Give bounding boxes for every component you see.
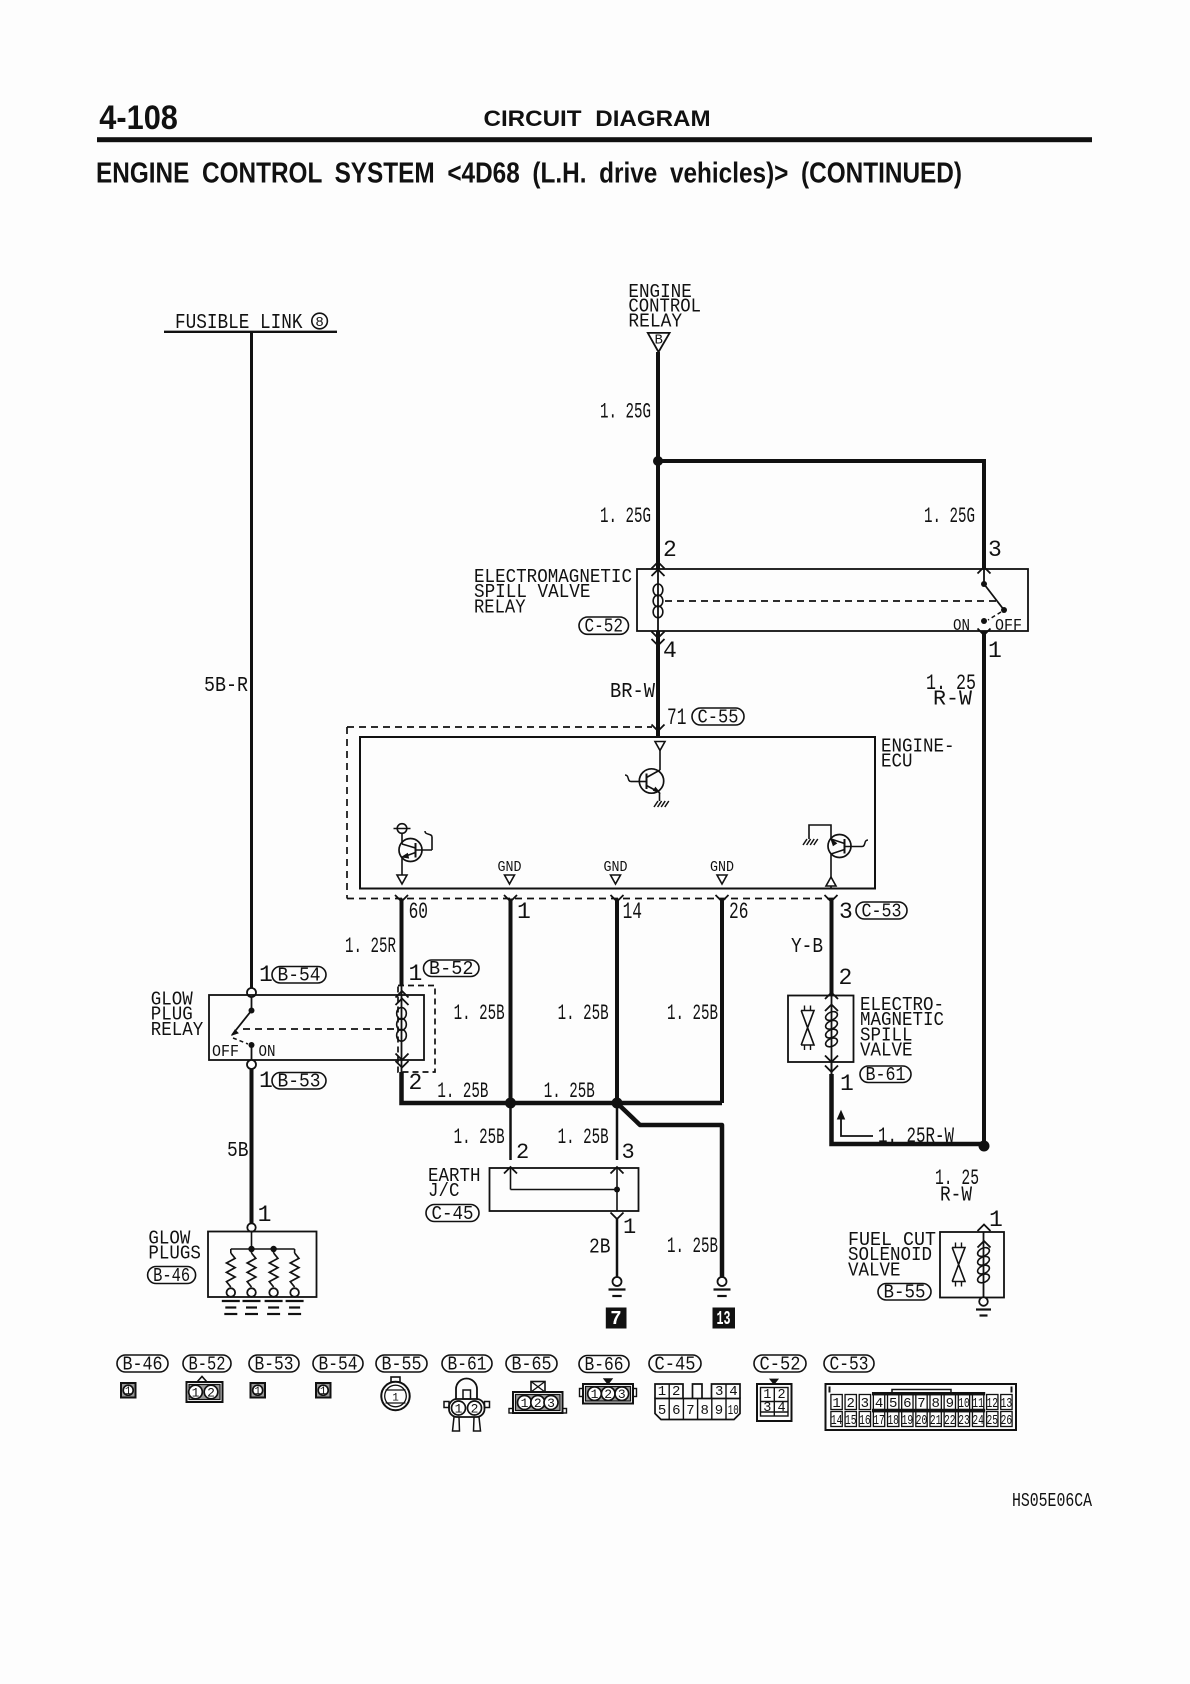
electromagnetic spill valve relay box C-52 <box>637 569 1028 631</box>
connector label B-53 (row) <box>249 1355 299 1372</box>
connector label C-53 (row) <box>824 1355 874 1372</box>
svg-text:4: 4 <box>875 1396 883 1412</box>
svg-text:8: 8 <box>700 1403 708 1419</box>
svg-text:1. 25B: 1. 25B <box>454 1001 505 1026</box>
svg-text:2: 2 <box>534 1396 542 1411</box>
svg-text:C-45: C-45 <box>655 1354 696 1376</box>
svg-text:2: 2 <box>663 537 677 563</box>
earth J/C box C-45 <box>490 1168 639 1211</box>
glow plugs internal bus <box>251 1232 253 1250</box>
svg-text:1: 1 <box>658 1384 666 1400</box>
B-52 connector arrows bottom <box>396 1054 409 1061</box>
node: B-54 terminal circle <box>247 988 256 997</box>
connector C-45 pin face <box>655 1384 740 1399</box>
svg-text:3: 3 <box>839 899 853 925</box>
fusible link circled 8 <box>312 313 328 329</box>
svg-text:HS05E06CA: HS05E06CA <box>1012 1490 1092 1512</box>
svg-text:8: 8 <box>315 315 323 331</box>
svg-text:8: 8 <box>931 1396 939 1412</box>
svg-text:4: 4 <box>729 1384 737 1400</box>
connector B-54 pin face <box>316 1383 331 1398</box>
svg-text:1. 25B: 1. 25B <box>558 1125 609 1150</box>
pin 2 connector arrows <box>652 562 665 569</box>
svg-text:7: 7 <box>610 1308 621 1330</box>
svg-text:11: 11 <box>972 1396 984 1412</box>
spill valve relay switch <box>983 569 985 584</box>
svg-text:1. 25B: 1. 25B <box>437 1079 488 1104</box>
svg-text:B-53: B-53 <box>255 1354 294 1376</box>
node: bus junction pin 1 <box>505 1098 516 1109</box>
fusible link bus bar <box>164 331 337 333</box>
svg-text:OFF: OFF <box>212 1042 239 1061</box>
transistor Q2 (center, pin 71 driver) <box>659 751 661 771</box>
svg-text:10: 10 <box>958 1396 970 1412</box>
svg-text:2: 2 <box>409 1070 423 1096</box>
B-61 pin 2 arrow inside box <box>825 1005 838 1012</box>
svg-text:1: 1 <box>409 961 423 987</box>
pin 60 arrow crossing harness <box>395 895 408 902</box>
svg-text:23: 23 <box>958 1413 970 1429</box>
svg-text:25: 25 <box>987 1413 999 1429</box>
node: glow plugs terminal circle <box>247 1223 255 1231</box>
svg-text:15: 15 <box>845 1413 857 1429</box>
wire: relay pin 1 down right side (1.25 R-W) <box>982 631 986 1146</box>
connector B-61 pin face <box>456 1379 477 1399</box>
spill valve relay coil <box>657 569 659 631</box>
svg-text:C-55: C-55 <box>698 706 739 728</box>
connector label C-45 (row) <box>649 1355 701 1372</box>
svg-text:ON: ON <box>953 616 970 635</box>
chassis ground of Q2 <box>654 801 658 807</box>
connector label B-66 (row) <box>579 1356 629 1373</box>
svg-text:B-55: B-55 <box>884 1282 926 1304</box>
svg-text:3: 3 <box>763 1401 771 1416</box>
svg-text:3: 3 <box>622 1140 635 1165</box>
wire: junction down to relay pin 2 <box>656 461 660 569</box>
svg-text:3: 3 <box>715 1384 723 1400</box>
connector label B-54 (row) <box>313 1355 363 1372</box>
svg-text:9: 9 <box>715 1403 723 1419</box>
connector label C-52 (row) <box>754 1355 806 1372</box>
wire: bus to earth J/C pin 2 <box>509 1103 512 1160</box>
svg-text:2: 2 <box>839 965 853 991</box>
svg-text:1: 1 <box>989 1207 1003 1233</box>
B-61 pin 1 arrow below box <box>825 1066 838 1073</box>
svg-text:1: 1 <box>517 899 531 925</box>
svg-text:RELAY: RELAY <box>628 311 682 333</box>
wire: relay pin 4 down to ECU pin 71 (BR-W) <box>656 631 660 737</box>
svg-text:GND: GND <box>604 859 628 876</box>
svg-text:22: 22 <box>944 1413 956 1429</box>
node: B-53 terminal circle <box>247 1060 256 1069</box>
GND triangle 2 <box>611 875 621 884</box>
earth J/C pin 1 arrow <box>611 1213 624 1220</box>
pin 1 arrow crossing harness <box>504 895 517 902</box>
svg-text:1: 1 <box>125 1386 132 1398</box>
svg-text:9: 9 <box>946 1396 954 1412</box>
ground reference 13 black box <box>713 1308 736 1329</box>
B-61 pin 2 arrow above box <box>825 993 838 1000</box>
glow plugs box B-46 <box>208 1232 317 1298</box>
svg-text:1: 1 <box>832 1396 840 1412</box>
transistor Q3 (right, pin 3 driver) <box>809 825 831 839</box>
svg-text:14: 14 <box>623 899 642 925</box>
svg-text:1. 25B: 1. 25B <box>454 1125 505 1150</box>
svg-text:1: 1 <box>258 1202 272 1228</box>
svg-text:5B: 5B <box>227 1139 249 1163</box>
ground symbol 13 <box>718 1277 727 1286</box>
svg-text:B-55: B-55 <box>382 1354 422 1376</box>
connector B-55 pin face <box>391 1377 400 1382</box>
switch throw arrow through box bottom <box>978 629 991 636</box>
connector B-66 pin face <box>604 1379 612 1384</box>
svg-text:B-66: B-66 <box>585 1354 624 1376</box>
harness dashed boundary bottom <box>347 898 836 900</box>
svg-text:1: 1 <box>254 1386 261 1398</box>
svg-text:14: 14 <box>831 1413 843 1429</box>
svg-text:71: 71 <box>667 705 686 731</box>
svg-text:1: 1 <box>988 638 1002 664</box>
svg-text:ON: ON <box>259 1042 276 1061</box>
transistor Q1 (left, pin 60 driver) <box>397 824 407 834</box>
fuel cut solenoid coil <box>983 1232 985 1298</box>
svg-text:1: 1 <box>320 1386 327 1398</box>
glow plug resistor 4 <box>294 1249 296 1253</box>
wire: glow plug relay to glow plugs (5B) <box>250 1069 254 1224</box>
GND triangle 3 <box>717 875 727 884</box>
svg-text:VALVE: VALVE <box>848 1259 901 1281</box>
svg-text:17: 17 <box>873 1413 885 1429</box>
pin 4 connector arrows <box>652 632 665 639</box>
ECU output arrowhead pin 60 <box>397 875 407 884</box>
svg-text:1: 1 <box>455 1401 463 1416</box>
svg-text:1: 1 <box>623 1215 636 1240</box>
B-61 pin 1 arrow inside box <box>825 1056 838 1063</box>
svg-text:BR-W: BR-W <box>610 680 655 704</box>
svg-text:1. 25R: 1. 25R <box>345 934 396 959</box>
connector C-52 pin face <box>770 1379 778 1384</box>
svg-text:B-61: B-61 <box>866 1064 906 1086</box>
svg-text:ECU: ECU <box>881 751 913 773</box>
connector label C-52 <box>579 617 629 634</box>
svg-text:Y-B: Y-B <box>791 935 823 959</box>
svg-text:B: B <box>654 333 662 349</box>
svg-text:5: 5 <box>658 1403 666 1419</box>
B-52 dashed connector box <box>398 986 435 1073</box>
svg-text:B-52: B-52 <box>429 958 474 980</box>
svg-text:B-65: B-65 <box>512 1354 552 1376</box>
svg-text:21: 21 <box>930 1413 942 1429</box>
svg-text:7: 7 <box>917 1396 925 1412</box>
svg-text:7: 7 <box>686 1403 694 1419</box>
connector label B-54 <box>272 967 326 984</box>
svg-text:B-53: B-53 <box>278 1071 321 1093</box>
B-55 pin 1 arrow above box <box>978 1225 991 1232</box>
engine control relay triangle B <box>648 333 670 352</box>
svg-text:3: 3 <box>861 1396 869 1412</box>
electromagnetic spill valve box B-61 <box>788 996 854 1063</box>
svg-text:1. 25G: 1. 25G <box>924 504 975 529</box>
B-55 pin 1 arrow inside box <box>978 1241 991 1248</box>
svg-text:1: 1 <box>521 1396 529 1411</box>
earth J/C internal wiring <box>510 1168 512 1190</box>
B-52 glow plug relay coil <box>401 986 403 1073</box>
svg-text:2: 2 <box>604 1387 612 1402</box>
svg-text:10: 10 <box>728 1403 739 1419</box>
svg-text:RELAY: RELAY <box>151 1019 204 1041</box>
spill valve symbol <box>801 1011 814 1046</box>
svg-text:B-46: B-46 <box>153 1265 190 1287</box>
glow plug relay box <box>209 995 424 1060</box>
harness dashed boundary left <box>346 727 348 899</box>
earth J/C pin 3 arrow <box>611 1167 624 1174</box>
connector label B-65 (row) <box>506 1355 557 1372</box>
svg-text:12: 12 <box>987 1396 999 1412</box>
wire: bus to earth J/C pin 3 <box>616 1103 619 1160</box>
svg-text:26: 26 <box>729 899 748 925</box>
svg-text:60: 60 <box>409 899 428 925</box>
wire: fusible link down to glow plug relay (5B-R) <box>250 332 253 988</box>
svg-text:1. 25B: 1. 25B <box>558 1001 609 1026</box>
pin 71 arrow into ECU <box>652 725 665 732</box>
connector label B-53 <box>272 1073 326 1090</box>
ground reference 7 black box <box>606 1308 627 1329</box>
svg-text:VALVE: VALVE <box>860 1040 913 1062</box>
harness dashed boundary top <box>347 726 652 728</box>
svg-text:4-108: 4-108 <box>99 99 178 137</box>
svg-text:R-W: R-W <box>940 1184 972 1208</box>
svg-text:B-46: B-46 <box>123 1354 163 1376</box>
svg-text:GND: GND <box>498 859 522 876</box>
svg-text:19: 19 <box>902 1413 914 1429</box>
wire name callout arrow 1.25R-W <box>841 1117 873 1136</box>
pin 26 arrow crossing harness <box>716 895 729 902</box>
wire: engine control relay down to junction (1.25G) <box>656 352 660 461</box>
wire: ECU pin 26 down (1.25B) <box>720 899 724 1104</box>
glow plug relay dashed link to coil <box>243 1028 394 1030</box>
svg-text:3: 3 <box>988 537 1002 563</box>
svg-text:J/C: J/C <box>428 1180 460 1202</box>
connector B-52 pin face <box>197 1377 207 1383</box>
svg-text:13: 13 <box>717 1308 731 1330</box>
wire: B-61 pin 1 to junction (1.25R-W) <box>831 1062 833 1076</box>
svg-text:1: 1 <box>259 1068 273 1094</box>
B-52 connector arrows top <box>396 991 409 998</box>
GND triangle 1 <box>505 875 515 884</box>
connector label B-61 (row) <box>442 1355 492 1372</box>
earth symbol B-55 <box>976 1308 991 1310</box>
glow plug resistor 1 <box>230 1249 232 1253</box>
glow plug ground terminals <box>227 1288 236 1297</box>
svg-text:2: 2 <box>207 1385 215 1400</box>
connector B-46 pin face <box>121 1383 136 1398</box>
svg-text:18: 18 <box>887 1413 899 1429</box>
connector label C-45 <box>426 1205 479 1222</box>
svg-text:B-54: B-54 <box>278 965 321 987</box>
svg-text:5: 5 <box>889 1396 897 1412</box>
fuel cut valve symbol <box>952 1248 965 1282</box>
connector label B-55 <box>878 1284 931 1301</box>
ground symbol 7 <box>613 1277 622 1286</box>
glow plug earth symbols <box>222 1300 240 1302</box>
pin 3 arrow crossing harness <box>825 895 838 902</box>
glow plug resistor 2 <box>251 1249 253 1253</box>
svg-text:RELAY: RELAY <box>474 596 526 618</box>
svg-text:1. 25B: 1. 25B <box>667 1234 718 1259</box>
wire: branch to ground 13 <box>617 1103 722 1277</box>
glow plug resistor 3 <box>273 1249 275 1253</box>
svg-text:C-52: C-52 <box>585 615 624 637</box>
wire: B-52 pin 2 to earth bus <box>402 1072 723 1103</box>
svg-text:1: 1 <box>591 1387 599 1402</box>
connector B-53 pin face <box>251 1383 266 1398</box>
svg-text:1. 25B: 1. 25B <box>667 1001 718 1026</box>
svg-text:20: 20 <box>916 1413 928 1429</box>
connector label C-53 <box>856 902 907 919</box>
svg-text:B-52: B-52 <box>189 1354 226 1376</box>
ECU input arrowhead at pin 71 <box>655 742 665 751</box>
wire: ECU pin 14 down (1.25B) <box>615 899 619 1104</box>
svg-text:1: 1 <box>840 1071 854 1097</box>
svg-text:6: 6 <box>903 1396 911 1412</box>
svg-text:B-61: B-61 <box>448 1354 487 1376</box>
svg-text:2: 2 <box>516 1140 529 1165</box>
connector C-53 pin face <box>826 1384 1017 1430</box>
header rule <box>97 137 1092 142</box>
svg-text:1: 1 <box>192 1385 200 1400</box>
node: 1.25G junction <box>653 456 663 466</box>
svg-text:2: 2 <box>672 1384 680 1400</box>
spill valve coil <box>831 996 833 1063</box>
svg-text:ENGINE CONTROL SYSTEM <4D68 (L: ENGINE CONTROL SYSTEM <4D68 (L.H. drive … <box>96 158 962 190</box>
connector label B-52 (row) <box>183 1355 231 1372</box>
connector label C-55 <box>692 708 744 725</box>
svg-text:GND: GND <box>710 859 734 876</box>
svg-text:R-W: R-W <box>933 688 972 712</box>
svg-text:C-45: C-45 <box>432 1203 474 1225</box>
svg-text:2: 2 <box>847 1396 855 1412</box>
svg-text:3: 3 <box>618 1387 626 1402</box>
svg-text:C-53: C-53 <box>862 900 902 922</box>
svg-text:1. 25B: 1. 25B <box>544 1079 595 1104</box>
connector label B-46 (row) <box>117 1355 168 1372</box>
svg-text:16: 16 <box>859 1413 871 1429</box>
connector label B-52 <box>424 960 480 977</box>
svg-text:1: 1 <box>392 1393 399 1405</box>
earth J/C pin 2 arrow <box>504 1167 517 1174</box>
svg-text:4: 4 <box>663 638 677 664</box>
svg-text:CIRCUIT: CIRCUIT <box>484 106 582 131</box>
connector B-65 pin face <box>531 1382 545 1393</box>
svg-text:DIAGRAM: DIAGRAM <box>595 106 710 131</box>
node: bus junction pin 14 <box>612 1098 623 1109</box>
svg-text:1: 1 <box>259 962 273 988</box>
svg-text:3: 3 <box>547 1396 555 1411</box>
svg-text:2B: 2B <box>589 1236 611 1260</box>
spill valve relay dashed link <box>665 600 999 602</box>
connector label B-55 (row) <box>376 1355 427 1372</box>
svg-text:4: 4 <box>777 1401 785 1416</box>
pin 14 arrow crossing harness <box>611 895 624 902</box>
svg-text:1. 25G: 1. 25G <box>600 504 651 529</box>
wire: ECU pin 60 down to B-52 (1.25R) <box>400 899 404 986</box>
svg-text:26: 26 <box>1001 1413 1013 1429</box>
svg-text:1. 25R-W: 1. 25R-W <box>878 1124 955 1149</box>
wire: ECU pin 1 down (1.25B) <box>509 899 513 1104</box>
svg-text:OFF: OFF <box>995 616 1022 635</box>
ground terminal of B-55 <box>979 1297 988 1306</box>
connector label B-61 <box>860 1066 911 1083</box>
node: junction right wire <box>979 1141 990 1152</box>
svg-text:1. 25G: 1. 25G <box>600 400 651 425</box>
wire: junction across to right branch <box>658 461 984 569</box>
fuel cut solenoid valve box B-55 <box>940 1232 1004 1298</box>
ECU output arrowhead pin 3 (open triangle up) <box>826 877 836 886</box>
connector label B-46 <box>148 1267 196 1284</box>
glow plug relay switch <box>251 997 253 1008</box>
svg-text:C-53: C-53 <box>830 1354 869 1376</box>
pin 3 connector arrow <box>978 567 991 574</box>
svg-text:B-54: B-54 <box>319 1354 358 1376</box>
wire: ECU pin 3 down to B-61 (Y-B) <box>830 899 834 996</box>
svg-text:C-52: C-52 <box>760 1354 801 1376</box>
svg-text:5B-R: 5B-R <box>204 674 248 698</box>
ECU box <box>360 737 875 889</box>
svg-text:PLUGS: PLUGS <box>148 1243 201 1265</box>
svg-text:6: 6 <box>672 1403 680 1419</box>
svg-text:2: 2 <box>471 1401 479 1416</box>
svg-text:13: 13 <box>1001 1396 1013 1412</box>
wire: earth J/C to ground 7 (2B) <box>616 1219 619 1277</box>
svg-text:24: 24 <box>972 1413 984 1429</box>
